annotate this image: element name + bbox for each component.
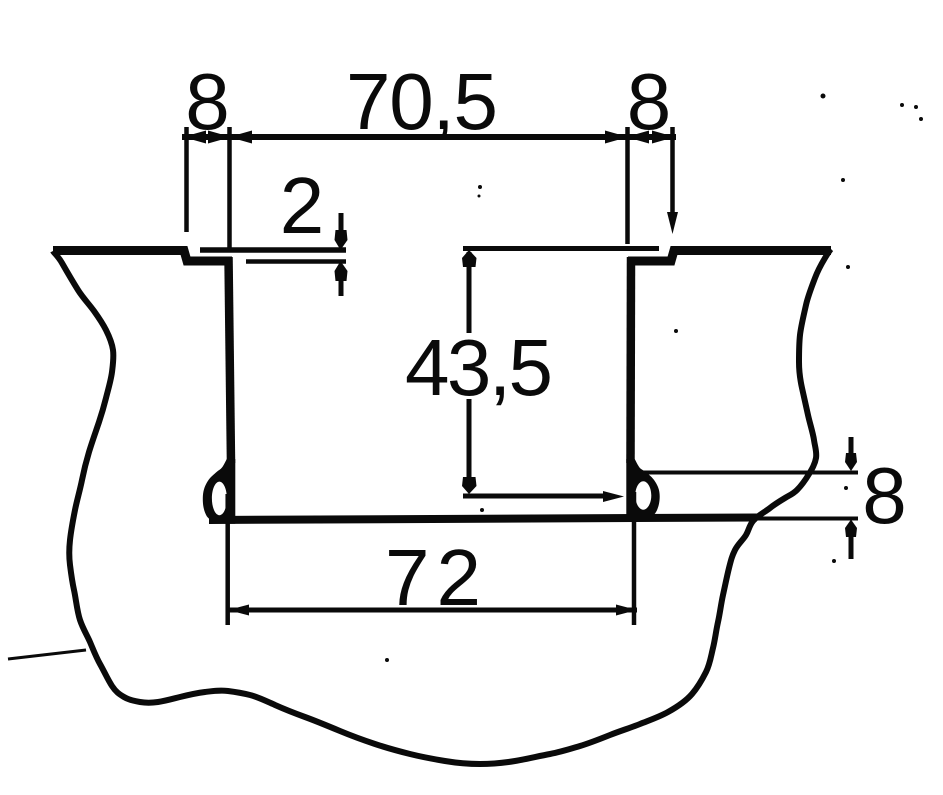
dim 43,5 reference right arrowhead: [603, 491, 624, 502]
dim 72 right extension line: [632, 492, 637, 625]
extension line x=229: [227, 127, 232, 248]
right wall: [626, 257, 635, 463]
top dimension line: [182, 134, 676, 140]
dim 72 left extension line: [225, 494, 230, 625]
svg-text:8: 8: [627, 57, 672, 146]
dim 72 left arrowhead: [228, 605, 249, 616]
dim 8 right upper arrow stem: [849, 437, 854, 457]
left foot hook: [203, 459, 236, 524]
dim 72 dimension line: [228, 608, 637, 613]
arrows meeting at x=229: [208, 131, 231, 144]
dim 43,5 top reference line: [463, 246, 659, 251]
dim 2 lower arrowhead: [335, 261, 348, 281]
dim 2 bottom reference line: [246, 259, 346, 264]
down arrow at x=672 extension: [667, 212, 678, 234]
extension line x=627: [625, 127, 630, 244]
dim 43,5 vertical line upper: [467, 252, 472, 333]
svg-text:2: 2: [280, 161, 325, 250]
arrows meeting at x=627: [605, 131, 628, 144]
dim 8 right top reference line: [641, 471, 858, 475]
arrow right of dim 8 right (tip at 673): [652, 131, 675, 144]
dim 43,5 top arrowhead: [462, 250, 477, 267]
right rim top surface with step: [628, 251, 831, 262]
dim 2 upper arrow stem: [339, 213, 344, 234]
dim 2 upper arrowhead: [335, 230, 348, 250]
svg-text:8: 8: [185, 57, 230, 146]
right foot hook: [626, 459, 659, 521]
dim 43,5 bottom reference line: [463, 494, 612, 499]
dim 43,5 vertical line lower: [467, 399, 472, 491]
dim 2 top reference line: [200, 247, 346, 253]
svg-text:70,5: 70,5: [346, 57, 498, 146]
svg-text:8: 8: [862, 451, 907, 540]
dim 2 lower arrow stem: [339, 278, 344, 296]
dim 43,5 bottom arrowhead: [462, 477, 477, 494]
bottom plate: [209, 518, 757, 521]
dim 8 right lower arrowhead: [845, 520, 857, 538]
speck dots: [821, 94, 826, 99]
left rim top surface with step: [53, 251, 232, 262]
stray short line bottom left: [8, 650, 86, 659]
dim 8 right bottom reference line: [750, 517, 858, 521]
arrow left of dim 8 left (tip at 186): [183, 131, 206, 144]
extension line x=672 with down arrow: [670, 127, 675, 216]
dim 8 right lower arrow stem: [849, 534, 854, 559]
material break line: [53, 249, 831, 764]
dim 8 right upper arrowhead: [845, 453, 857, 471]
dim 72 right arrowhead: [616, 605, 637, 616]
svg-text:43,5: 43,5: [405, 323, 553, 412]
left wall: [229, 257, 232, 463]
extension line x=186: [184, 127, 189, 232]
